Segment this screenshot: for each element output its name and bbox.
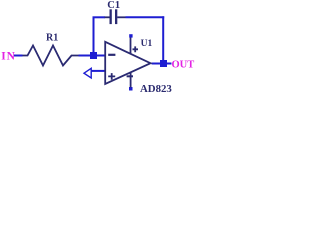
svg-text:R1: R1	[46, 32, 58, 43]
svg-text:C1: C1	[107, 0, 120, 11]
svg-text:AD823: AD823	[140, 83, 172, 95]
svg-text:IN: IN	[1, 51, 15, 63]
svg-text:OUT: OUT	[172, 60, 195, 71]
svg-text:U1: U1	[141, 39, 153, 49]
